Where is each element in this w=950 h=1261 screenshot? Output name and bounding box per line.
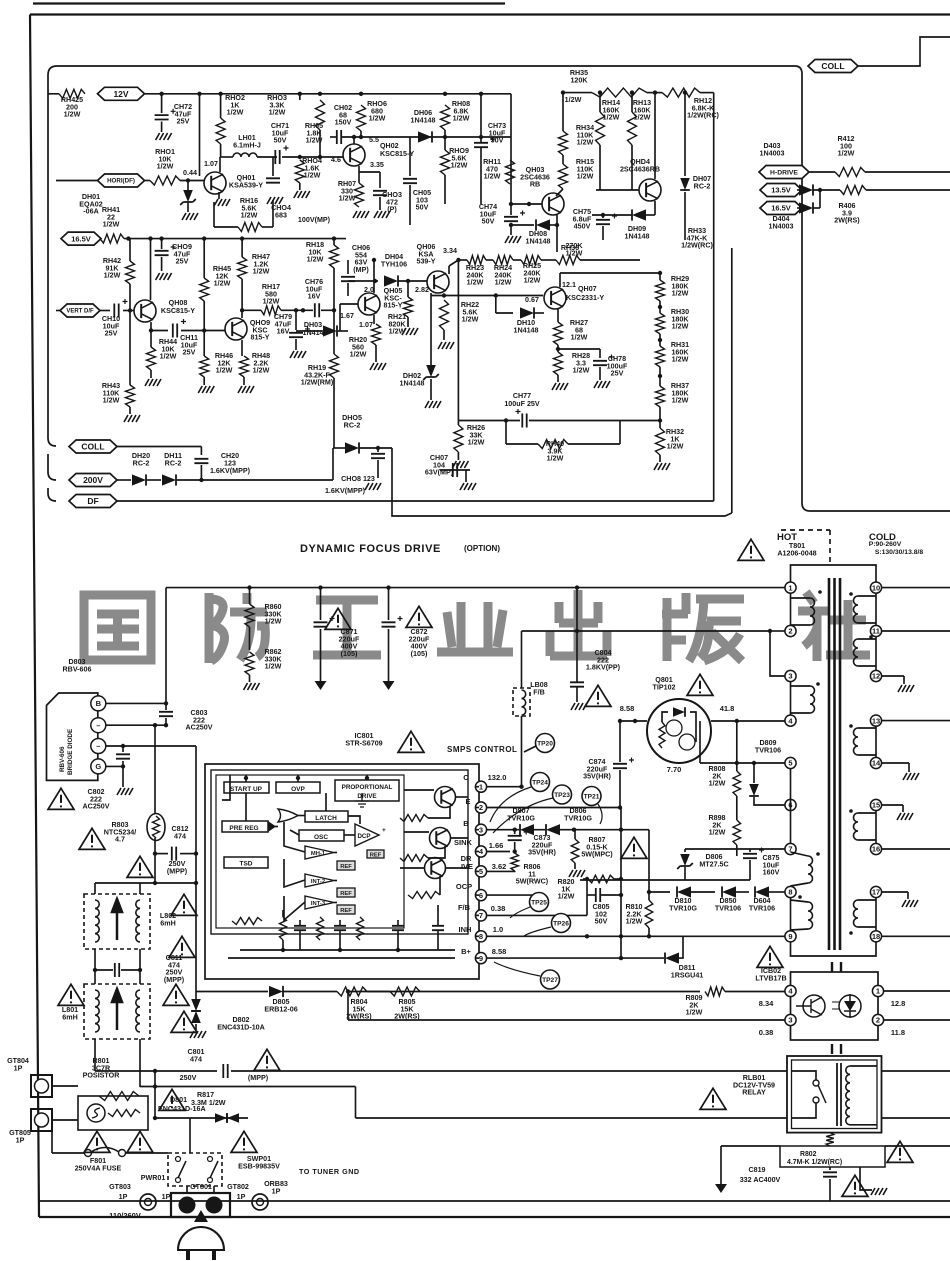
svg-text:TO TUNER GND: TO TUNER GND — [299, 1167, 360, 1176]
resistor RH36 — [556, 256, 580, 265]
block START UP — [224, 782, 269, 793]
primary winding 3-4 — [790, 682, 792, 716]
svg-text:8: 8 — [788, 888, 792, 897]
wire minus1 row — [106, 724, 155, 726]
svg-text:R80515K2W(RS): R80515K2W(RS) — [394, 998, 420, 1021]
wire QH01 emitter resistor riser — [213, 202, 215, 227]
svg-text:RH27681/2W: RH27681/2W — [570, 319, 588, 342]
svg-text:COLL: COLL — [821, 61, 844, 71]
net label 13.5V — [760, 184, 802, 197]
resistor RH43 — [126, 385, 135, 407]
ground CH72 — [156, 133, 172, 140]
wire left bus of focus box — [48, 66, 57, 493]
net label 16.5V — [61, 232, 101, 245]
resistor RH47 — [238, 257, 247, 279]
svg-text:R860330K1/2W: R860330K1/2W — [264, 603, 282, 626]
wire pin6 net — [487, 895, 540, 902]
svg-text:OCP: OCP — [456, 882, 472, 891]
svg-text:–: – — [96, 742, 100, 751]
svg-text:MH-1: MH-1 — [311, 851, 326, 857]
warning triangle C819 — [842, 1175, 868, 1196]
capacitor CH75 — [596, 220, 610, 224]
wire QH02 emitter to RH07 — [358, 166, 360, 183]
capacitor C801 in bus — [95, 1070, 217, 1072]
resistor RH34 — [559, 131, 568, 155]
resistor R810 — [645, 900, 653, 928]
svg-text:RH13160K1/2W: RH13160K1/2W — [633, 99, 652, 122]
resistor RH07 — [355, 183, 364, 207]
resistor RH02 — [216, 118, 225, 144]
net label 12V — [98, 87, 145, 100]
svg-text:C811474250V(MPP): C811474250V(MPP) — [164, 954, 185, 984]
wire RH17 row — [240, 308, 244, 312]
warning triangle IC801 — [398, 731, 424, 752]
svg-text:CH7610uF16V: CH7610uF16V — [305, 278, 323, 301]
transistor QH07 — [544, 287, 566, 309]
IC801 inner box — [211, 770, 468, 934]
warning triangle fuse1 — [84, 1131, 110, 1152]
wire pin5 net — [487, 870, 515, 872]
core marks below IC802 — [832, 1044, 841, 1054]
block OVP — [276, 782, 320, 793]
svg-text:H-DRIVE: H-DRIVE — [770, 169, 798, 176]
warning triangle C802 — [48, 788, 74, 809]
svg-text:RH4410K1/2W: RH4410K1/2W — [159, 338, 177, 361]
inductor L802 — [84, 894, 150, 949]
block REF2 — [337, 888, 355, 897]
relay coil — [846, 1066, 850, 1125]
wire QH03 emitter bus down — [556, 225, 558, 252]
svg-text:D810TVR10G: D810TVR10G — [669, 897, 697, 912]
diode D811 — [665, 953, 679, 964]
svg-text:CH7410uF50V: CH7410uF50V — [479, 203, 497, 226]
resistor RH23 — [467, 256, 486, 265]
wire Q801 row 721 — [622, 720, 647, 722]
test point TP23 — [553, 785, 572, 804]
svg-text:LB08F/B: LB08F/B — [530, 681, 547, 696]
svg-text:LATCH: LATCH — [315, 815, 337, 822]
resistor RH22 — [440, 300, 449, 330]
svg-text:132.0: 132.0 — [488, 773, 507, 782]
wire pin7 net — [487, 914, 587, 916]
svg-text:COLL: COLL — [81, 442, 104, 452]
comparator INT-3 — [305, 896, 334, 909]
svg-text:SMPS CONTROL: SMPS CONTROL — [447, 745, 517, 754]
capacitor C804 — [570, 682, 584, 686]
svg-text:D802ENC431D-10A: D802ENC431D-10A — [217, 1016, 265, 1031]
svg-text:1: 1 — [876, 987, 880, 996]
svg-text:6: 6 — [479, 891, 483, 900]
svg-text:1.07: 1.07 — [204, 160, 218, 168]
wire CH05 branch — [409, 137, 411, 176]
resistor RH09 — [441, 150, 450, 175]
svg-text:C: C — [463, 773, 469, 782]
wire GT804 to posistor — [52, 1085, 78, 1087]
svg-text:R4121001/2W: R4121001/2W — [837, 135, 854, 158]
svg-text:Q801TIP102: Q801TIP102 — [652, 676, 675, 691]
net label 200V — [69, 474, 117, 487]
svg-text:CHO4683: CHO4683 — [271, 204, 291, 219]
svg-text:1P: 1P — [237, 1193, 246, 1201]
svg-text:RH4291K1/2W: RH4291K1/2W — [103, 257, 121, 280]
transformer pin 18 — [870, 931, 881, 942]
svg-text:D809TVR106: D809TVR106 — [755, 739, 781, 754]
wire opto pin2 out — [884, 1019, 950, 1021]
secondary winding 10-11 — [875, 593, 877, 625]
svg-text:PRE REG: PRE REG — [229, 825, 258, 832]
fuse F801 — [85, 1150, 92, 1157]
diode DH04 — [384, 275, 398, 286]
resistor RH17 — [261, 306, 281, 315]
inductor L801 — [84, 984, 150, 1039]
wire switch drop — [189, 1118, 191, 1153]
wire opto pin4 net — [420, 991, 700, 993]
svg-text:CHO3472(P): CHO3472(P) — [382, 191, 402, 214]
svg-text:16.5V: 16.5V — [771, 204, 791, 213]
resistor R809 — [705, 987, 725, 996]
wire RH12 box right — [713, 93, 715, 499]
svg-text:CH78100uF25V: CH78100uF25V — [607, 355, 628, 378]
net label H-DRIVE — [759, 166, 809, 179]
wire long vertical 731 — [731, 248, 733, 511]
wire 12V right drop — [510, 94, 512, 204]
svg-text:R8092K1/2W: R8092K1/2W — [685, 994, 702, 1017]
wire pin11 out — [882, 630, 950, 632]
arrow TP24 — [490, 787, 531, 822]
resistor RH01 — [150, 176, 180, 185]
wire branch to switch — [155, 1117, 248, 1119]
svg-text:RH2633K1/2W: RH2633K1/2W — [467, 424, 485, 447]
svg-text:CH7110uF50V: CH7110uF50V — [271, 122, 289, 145]
ground CH79 — [290, 351, 306, 358]
svg-text:R802: R802 — [800, 1151, 817, 1158]
watermark char chu — [550, 590, 607, 657]
ground CH09 — [156, 273, 172, 280]
svg-text:(OPTION): (OPTION) — [464, 544, 500, 553]
block REF dcp — [367, 850, 384, 858]
svg-text:REF: REF — [340, 891, 352, 897]
svg-text:15: 15 — [872, 801, 880, 810]
capacitor CH08 branch — [376, 446, 380, 450]
svg-text:DH01EQA02-06A: DH01EQA02-06A — [79, 193, 102, 216]
ground pin17 — [902, 900, 918, 907]
capacitor C812 — [155, 853, 168, 855]
wire pin2 long net — [522, 630, 771, 632]
svg-text:LH016.1mH-J: LH016.1mH-J — [233, 134, 261, 149]
svg-text:D807TVR10G: D807TVR10G — [507, 807, 535, 822]
wire pin8 INH net — [487, 935, 649, 937]
ground R862 — [244, 683, 260, 690]
wire pin16 out — [882, 848, 950, 850]
capacitor CH77 — [522, 414, 526, 428]
svg-text:DH081N4148: DH081N4148 — [525, 230, 550, 245]
warning triangle L802 — [171, 894, 197, 915]
svg-text:R8070.15-K5W(MPC): R8070.15-K5W(MPC) — [581, 836, 613, 859]
diode DH20 — [132, 474, 146, 485]
svg-text:RH4252001/2W: RH4252001/2W — [61, 96, 83, 119]
svg-text:RH403.9K1/2W: RH403.9K1/2W — [546, 440, 564, 463]
wire RH15 to QH03 — [556, 189, 563, 196]
resistor RH46 — [200, 356, 209, 377]
wire opto pin1 out — [884, 990, 950, 992]
svg-text:SWP01ESB-99835V: SWP01ESB-99835V — [238, 1155, 280, 1170]
diode D807 — [520, 824, 534, 835]
wire main vertical 458 — [457, 260, 459, 421]
svg-text:QH01KSA539-Y: QH01KSA539-Y — [229, 174, 263, 189]
wire bus right of relay — [882, 1070, 950, 1072]
svg-text:7: 7 — [479, 911, 483, 920]
ground arrow C819 — [715, 1184, 727, 1193]
svg-text:DH101N4148: DH101N4148 — [513, 319, 538, 334]
transformer pin 12 — [870, 670, 881, 681]
comparator DCP — [355, 824, 379, 846]
wire chain x155 down — [154, 1071, 156, 1118]
ground CH07 — [460, 483, 476, 490]
svg-text:RH165.6K1/2W: RH165.6K1/2W — [240, 197, 258, 220]
svg-text:RH471.2K1/2W: RH471.2K1/2W — [252, 253, 270, 276]
resistor RH37 — [656, 386, 665, 407]
ground arrow C871 — [315, 681, 327, 690]
svg-text:3.34: 3.34 — [443, 247, 457, 255]
svg-text:C87510uF160V: C87510uF160V — [762, 854, 780, 877]
svg-text:R806115W(RWC): R806115W(RWC) — [516, 863, 549, 886]
arrow TP23 — [493, 798, 553, 833]
R802 box — [780, 1146, 885, 1167]
svg-text:START UP: START UP — [230, 786, 263, 793]
watermark char guo — [84, 595, 151, 660]
svg-text:RH1810K1/2W: RH1810K1/2W — [306, 241, 324, 264]
resistor RH40 — [538, 440, 568, 449]
svg-text:CH7247uF25V: CH7247uF25V — [174, 103, 192, 126]
resistor RH41 — [100, 234, 124, 243]
test point TP26 — [552, 914, 571, 933]
resistor RH48 — [240, 356, 249, 377]
wire QH04 collector — [654, 110, 656, 179]
test point TP27 — [541, 970, 560, 989]
wire filter bottom — [94, 1039, 96, 1071]
svg-text:D806MT27.5C: D806MT27.5C — [699, 853, 728, 868]
svg-text:F/B: F/B — [458, 903, 471, 912]
transformer pin 7 — [785, 843, 796, 854]
IC resistor r1 — [400, 815, 428, 822]
arrow TP26 — [524, 927, 551, 936]
svg-text:RH37180K1/2W: RH37180K1/2W — [671, 382, 690, 405]
svg-text:RH086.8K1/2W: RH086.8K1/2W — [452, 100, 470, 123]
capacitor CH72 — [155, 115, 169, 119]
wire B to bus — [106, 702, 166, 704]
svg-text:RH24240K1/2W: RH24240K1/2W — [494, 264, 513, 287]
resistor RH18 — [330, 245, 339, 268]
wire RH16 row — [221, 226, 223, 228]
transistor QH06 — [427, 271, 449, 293]
block REF1 — [337, 861, 355, 870]
svg-text:RH34110K1/2W: RH34110K1/2W — [576, 124, 594, 147]
wire 16.5V to 13.5V join — [819, 190, 821, 208]
IC transistor Q2 — [430, 828, 451, 849]
svg-text:RH35120K: RH35120K — [570, 69, 589, 84]
wire CH78 branch — [556, 347, 560, 351]
svg-text:F801250V4A FUSE: F801250V4A FUSE — [75, 1157, 122, 1172]
page top rule — [33, 2, 505, 4]
svg-text:110/260V: 110/260V — [109, 1211, 141, 1220]
svg-text:G: G — [95, 762, 101, 771]
terminal G — [91, 759, 106, 774]
resistor RH24 — [493, 256, 513, 265]
resistor R806 — [511, 853, 519, 871]
svg-text:RH41221/2W: RH41221/2W — [102, 206, 120, 229]
warning triangle C872 — [406, 606, 432, 627]
net label COLL — [69, 440, 117, 453]
secondary winding 13-14 — [875, 726, 877, 757]
capacitor CH73 — [474, 143, 488, 147]
resistor RH29 — [656, 280, 665, 301]
svg-text:12: 12 — [872, 672, 880, 681]
wire 12V inner vertical — [199, 94, 201, 176]
wire pin6 xfmr row — [768, 804, 785, 806]
IC block wiring — [245, 775, 247, 782]
svg-text:RH225.6K1/2W: RH225.6K1/2W — [461, 301, 479, 324]
svg-text:QHO9KSC815-Y: QHO9KSC815-Y — [250, 319, 270, 342]
diode DH09 — [632, 209, 646, 220]
warning triangle C871 — [325, 608, 351, 629]
IC transistor Q1 — [435, 787, 456, 808]
capacitor CH09 — [155, 251, 169, 255]
svg-text:1.67: 1.67 — [340, 312, 354, 320]
svg-text:CH0268150V: CH0268150V — [334, 104, 352, 127]
svg-text:GT802: GT802 — [227, 1183, 249, 1191]
wire CH71 to QH02 base — [282, 156, 343, 158]
diode D403 body — [799, 184, 813, 195]
warning triangle SWP01 — [231, 1131, 257, 1152]
net label HORI(DF) — [98, 174, 145, 187]
svg-text:TP24: TP24 — [532, 780, 548, 787]
svg-text:RBV-606: RBV-606 — [59, 746, 66, 772]
svg-text:RH4612K1/2W: RH4612K1/2W — [215, 352, 233, 375]
wire opto pin3 net — [347, 992, 349, 1021]
net label COLL (top right) — [808, 60, 858, 73]
net label VERT D/F — [60, 304, 100, 317]
wire QH04 emitter to DH09 row — [654, 201, 656, 215]
svg-text:PWR01: PWR01 — [141, 1174, 166, 1182]
svg-text:B: B — [463, 819, 469, 828]
wire bus2 upper — [140, 1086, 356, 1088]
ground CH03 — [374, 211, 390, 218]
IC resistor r2 — [400, 855, 428, 862]
wire CH09 branch — [161, 239, 163, 249]
terminal B — [91, 696, 106, 711]
capacitor CH02 — [337, 130, 341, 144]
secondary winding 17-18 — [875, 898, 877, 931]
svg-text:12.1: 12.1 — [562, 281, 576, 289]
svg-text:L8026mH: L8026mH — [160, 912, 176, 927]
ground pin15 — [897, 813, 913, 820]
warning triangle IC802 — [757, 946, 783, 967]
svg-text:5: 5 — [479, 867, 483, 876]
inductor LH01 — [233, 153, 257, 157]
primary winding 1-2 — [790, 593, 792, 625]
wire pin13 out — [882, 720, 950, 722]
svg-text:–: – — [96, 721, 100, 730]
posistor zigzag — [108, 1110, 140, 1117]
svg-text:R8102.2K1/2W: R8102.2K1/2W — [625, 903, 642, 926]
resistor RH14 body — [596, 112, 605, 145]
IC801 pin 3 — [475, 824, 486, 835]
block OSC — [299, 830, 344, 841]
svg-text:R8982K1/2W: R8982K1/2W — [708, 814, 725, 837]
svg-text:QH06KSA539-Y: QH06KSA539-Y — [416, 243, 435, 266]
ground CH04 — [267, 197, 283, 204]
transformer pin 1 — [785, 582, 796, 593]
IC resistor r3 — [408, 892, 440, 899]
wire pin9 B+ net — [487, 957, 664, 959]
posistor resistor on box — [99, 1092, 139, 1101]
svg-text:CHO947uF25V: CHO947uF25V — [172, 243, 192, 266]
secondary winding 11-12 — [875, 637, 877, 671]
svg-text:R4063.92W(RS): R4063.92W(RS) — [834, 202, 860, 225]
svg-text:RH283.31/2W: RH283.31/2W — [572, 352, 590, 375]
IC801 pin 5 — [475, 866, 486, 877]
svg-text:250V: 250V — [180, 1074, 197, 1082]
transformer pin 5 — [785, 757, 796, 768]
test point TP20 — [536, 734, 555, 753]
svg-text:QHD42SC4636RB: QHD42SC4636RB — [620, 158, 660, 173]
capacitor C805 — [596, 888, 600, 902]
ground RH32 — [654, 463, 670, 470]
capacitor CH20 — [194, 459, 208, 463]
resistor RH425 — [59, 89, 85, 98]
svg-text:CH7310uF50V: CH7310uF50V — [488, 122, 506, 145]
thermistor R803 — [147, 814, 165, 841]
svg-text:CH1010uF25V: CH1010uF25V — [102, 315, 120, 338]
transformer pin 10 — [870, 582, 881, 593]
transformer pin 4 — [785, 715, 796, 726]
svg-text:5: 5 — [788, 759, 792, 768]
svg-text:RH126.8K-K1/2W(RC): RH126.8K-K1/2W(RC) — [687, 97, 719, 120]
terminal ORB83 ring — [252, 1194, 268, 1210]
svg-text:200V: 200V — [83, 475, 103, 485]
wire CH03 branch — [359, 171, 380, 173]
diode D806x — [546, 824, 560, 835]
wire QH09 collector — [241, 310, 243, 318]
resistor RH12 — [662, 88, 700, 97]
svg-text:RLB01DC12V-TV59RELAY: RLB01DC12V-TV59RELAY — [733, 1074, 775, 1097]
svg-text:RH30180K1/2W: RH30180K1/2W — [671, 308, 690, 331]
diode DH10 — [520, 307, 534, 318]
transformer bottom bracket — [791, 942, 877, 957]
relay core — [836, 1063, 838, 1126]
wire QH04 base — [596, 189, 639, 191]
svg-text:T801A1206-0048: T801A1206-0048 — [777, 542, 816, 557]
svg-text:CH0655463V(MP): CH0655463V(MP) — [352, 244, 370, 274]
test point TP21 — [582, 787, 601, 806]
svg-text:CH0710463V(MP): CH0710463V(MP) — [425, 454, 454, 477]
wire QH07 emitter — [557, 309, 559, 322]
diode DH08 — [536, 219, 550, 230]
svg-text:0.44: 0.44 — [183, 169, 197, 177]
svg-text:12V: 12V — [113, 89, 128, 99]
svg-text:REF: REF — [340, 908, 352, 914]
resistor RH15 — [559, 164, 568, 189]
ground C804 — [571, 703, 587, 710]
inductor LB08 — [513, 688, 530, 716]
IC802 pin 4 — [785, 985, 796, 996]
wire R808 chain — [736, 721, 738, 771]
wire QH08 emitter — [150, 322, 152, 347]
svg-text:RH43110K1/2W: RH43110K1/2W — [102, 382, 120, 405]
svg-text:100V(MP): 100V(MP) — [298, 216, 331, 224]
wire 200V row — [117, 479, 131, 481]
ground C802 — [117, 788, 133, 795]
